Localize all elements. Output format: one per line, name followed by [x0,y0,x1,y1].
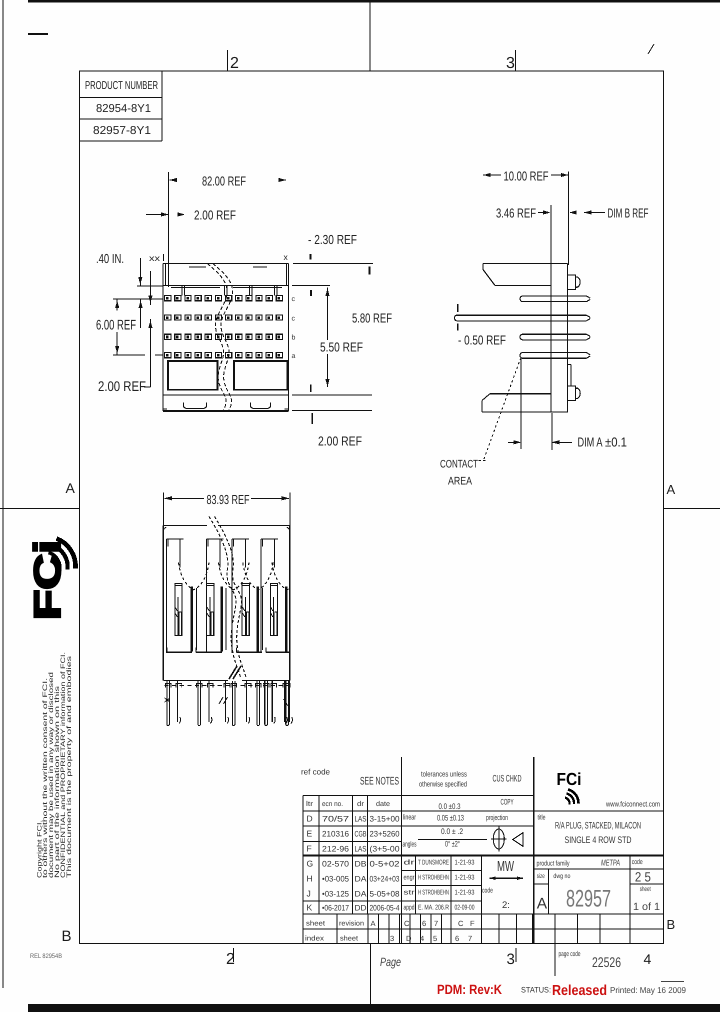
svg-text:03+24+03: 03+24+03 [370,875,400,884]
svg-text:6: 6 [455,934,459,943]
svg-text:2.00 REF: 2.00 REF [318,434,362,449]
svg-text:size: size [537,873,545,880]
svg-text:Printed: May 16 2009: Printed: May 16 2009 [610,985,686,995]
svg-text:LAS: LAS [355,845,367,854]
svg-text:R/A PLUG, STACKED, MILACON: R/A PLUG, STACKED, MILACON [555,821,641,832]
svg-text:0.0 ±0.3: 0.0 ±0.3 [439,802,461,811]
svg-text:22526: 22526 [592,954,621,970]
svg-text:3: 3 [507,951,515,968]
svg-text:engr: engr [404,875,416,882]
svg-text:210316: 210316 [322,830,350,839]
svg-text:23+5260: 23+5260 [370,830,401,839]
svg-text:H: H [307,874,313,884]
svg-text:- 0.50 REF: - 0.50 REF [458,333,506,348]
svg-text:5-05+08: 5-05+08 [370,890,401,899]
svg-text:2 5: 2 5 [635,869,651,884]
svg-text:str: str [404,890,416,897]
svg-text:5.80 REF: 5.80 REF [352,311,392,326]
svg-text:sheet: sheet [640,886,651,893]
svg-text:3: 3 [390,934,394,943]
svg-text:Page: Page [380,955,401,969]
svg-text:T DUNSMORE: T DUNSMORE [418,860,449,867]
svg-text:0.0 ± .2: 0.0 ± .2 [441,827,463,836]
svg-text:2.00 REF: 2.00 REF [194,208,236,223]
svg-text:5: 5 [433,934,437,943]
svg-text:82957: 82957 [566,886,611,913]
svg-text:7: 7 [468,934,472,943]
svg-text:4: 4 [420,934,424,943]
svg-text:6: 6 [422,919,426,928]
svg-text:ltr: ltr [306,800,314,808]
svg-text:3: 3 [506,55,515,72]
svg-text:02-570: 02-570 [322,860,350,869]
svg-text:LAS: LAS [355,815,367,824]
svg-text:A: A [66,480,76,496]
svg-text:c: c [292,315,296,322]
svg-text:DA: DA [355,890,368,899]
svg-text:2.00 REF: 2.00 REF [98,378,146,394]
svg-text:CUS CHKD: CUS CHKD [493,774,522,785]
svg-text:F: F [307,844,312,854]
svg-text:code: code [632,858,643,866]
svg-text:revision: revision [339,920,364,928]
svg-text:ref code: ref code [301,768,331,777]
svg-text:C: C [404,919,410,928]
svg-text:D: D [307,814,313,824]
svg-text:±0.1: ±0.1 [605,435,627,450]
svg-text:6.00 REF: 6.00 REF [96,317,136,333]
svg-text:STATUS:: STATUS: [521,986,551,995]
svg-text:G: G [307,859,314,869]
svg-text:•03-005: •03-005 [322,875,350,884]
svg-text:SINGLE 4 ROW STD: SINGLE 4 ROW STD [565,835,632,846]
svg-text:82954-8Y1: 82954-8Y1 [96,103,151,115]
svg-text:ecn no.: ecn no. [322,801,343,808]
svg-text:title: title [538,814,546,822]
svg-text:2: 2 [230,55,239,72]
svg-text:02-09-00: 02-09-00 [455,905,475,912]
svg-text:DA: DA [355,875,368,884]
svg-text:REL 82954B: REL 82954B [30,953,62,960]
svg-text:tolerances unless: tolerances unless [421,770,467,779]
svg-text:DIM B REF: DIM B REF [608,206,649,221]
svg-text:date: date [376,800,390,808]
svg-text:otherwise specified: otherwise specified [419,780,467,789]
svg-text:Released: Released [552,983,607,999]
svg-text:sheet: sheet [306,920,325,928]
svg-text:page code: page code [559,950,581,958]
svg-text:2:: 2: [502,900,510,911]
svg-text:PRODUCT NUMBER: PRODUCT NUMBER [85,80,158,92]
svg-text:1 of 1: 1 of 1 [633,901,660,913]
svg-text:dr: dr [357,800,365,808]
svg-text:B: B [62,928,72,945]
svg-text:1-21-93: 1-21-93 [455,860,475,867]
svg-text:b: b [292,334,296,342]
svg-text:DIM A: DIM A [578,435,603,450]
svg-text:PDM: Rev:K: PDM: Rev:K [437,982,502,997]
svg-text:D: D [406,934,412,943]
svg-text:Copyright FCI.: Copyright FCI. [36,820,43,878]
svg-text:sheet: sheet [340,935,358,943]
svg-text:appd: appd [404,904,415,912]
svg-text:c: c [292,296,296,303]
svg-text:code: code [482,887,493,895]
svg-text:product family: product family [537,860,570,868]
svg-text:COPY: COPY [501,798,514,807]
svg-text:xx: xx [149,253,161,263]
svg-text:F: F [470,919,475,928]
svg-text:3.46 REF: 3.46 REF [496,206,536,221]
svg-text:E: E [307,829,313,839]
svg-text:dr: dr [404,859,416,867]
svg-text:J: J [307,889,311,899]
svg-text:FCi: FCi [557,769,582,789]
svg-text:CGB: CGB [355,830,367,839]
svg-text:- 2.30 REF: - 2.30 REF [308,232,357,247]
svg-text:K: K [307,903,313,913]
svg-text:E. MA. 206.R: E. MA. 206.R [418,905,449,912]
svg-text:A: A [667,482,676,497]
svg-text:angles: angles [403,840,417,849]
svg-text:1-21-93: 1-21-93 [455,875,475,882]
svg-text:70/57: 70/57 [322,815,350,824]
svg-text:212-96: 212-96 [322,845,350,854]
svg-text:0.05 ±0.13: 0.05 ±0.13 [437,814,464,823]
svg-text:A: A [537,896,548,913]
svg-text:AREA: AREA [448,476,473,488]
svg-text:C: C [458,919,464,928]
svg-text:•03-125: •03-125 [322,890,350,899]
svg-text:MW: MW [497,859,514,875]
svg-text:projection: projection [486,813,508,822]
svg-text:2006-05-4: 2006-05-4 [370,904,400,913]
svg-text:1-21-93: 1-21-93 [455,890,475,897]
svg-text:H STROHBEHN: H STROHBEHN [418,890,449,897]
svg-text:SEE NOTES: SEE NOTES [360,776,399,788]
svg-text:•06-2017: •06-2017 [322,904,349,913]
svg-text:10.00 REF: 10.00 REF [504,169,549,184]
svg-text:x: x [284,252,289,262]
svg-text:(3+5-00: (3+5-00 [370,845,401,854]
svg-text:83.93 REF: 83.93 REF [207,492,250,507]
svg-text:82957-8Y1: 82957-8Y1 [93,125,151,137]
svg-text:A: A [371,919,376,928]
svg-text:index: index [305,935,325,943]
svg-text:a: a [292,353,296,360]
svg-text:dwg no: dwg no [553,873,570,880]
svg-text:82.00 REF: 82.00 REF [202,174,246,189]
svg-text:www.fciconnect.com: www.fciconnect.com [605,800,660,809]
svg-text:4: 4 [644,951,652,967]
svg-text:DB: DB [355,860,367,869]
svg-text:CONTACT: CONTACT [440,459,478,471]
svg-text:DD: DD [355,904,367,913]
svg-text:3-15+00: 3-15+00 [370,815,401,824]
svg-text:7: 7 [434,919,438,928]
svg-text:0-5+02: 0-5+02 [370,860,401,869]
svg-text:B: B [667,917,676,932]
svg-text:linear: linear [403,813,416,822]
svg-text:.40 IN.: .40 IN. [96,251,124,266]
svg-text:0° ±2°: 0° ±2° [445,840,460,849]
svg-text:5.50 REF: 5.50 REF [320,340,363,355]
svg-text:H STROHBEHN: H STROHBEHN [418,875,449,882]
svg-text:METPA: METPA [601,858,620,868]
